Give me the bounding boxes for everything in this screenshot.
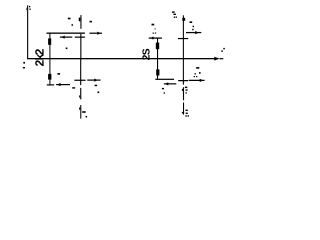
capacitor C1 lead below wire bbox=[80, 34, 81, 58]
arrowhead right end of rail bbox=[214, 57, 219, 61]
capacitor C3 plate bbox=[178, 38, 188, 39]
resistor R2 lead bbox=[49, 58, 50, 85]
label cluster top right bbox=[172, 11, 175, 12]
label specks left of R3 bbox=[152, 24, 155, 26]
capacitor C2 plate bbox=[74, 80, 85, 81]
axis arrow (left vertical reference line, arrowhead up) bbox=[27, 5, 28, 58]
specks below corner bbox=[162, 88, 164, 89]
specks above that arrow bbox=[196, 67, 199, 69]
dot mid left bbox=[66, 48, 68, 50]
resistor R3 bbox=[156, 43, 159, 50]
wire top rail left bbox=[47, 33, 85, 34]
vertical arrow up (below right rail) bbox=[183, 87, 184, 100]
current arrow left on bottom wire bbox=[56, 84, 70, 85]
capacitor C2 lead below rail bbox=[80, 58, 81, 85]
resistor R1 lead bbox=[49, 33, 50, 58]
speck left of rail bbox=[23, 62, 25, 64]
dots above rail end bbox=[221, 50, 223, 52]
resistor R4 bbox=[156, 69, 159, 75]
value label 2k2 (rotated) bbox=[35, 49, 44, 66]
dots near axis top bbox=[29, 6, 30, 7]
capacitor C4 plate (crossing) bbox=[178, 80, 188, 81]
capacitor C1 bottom plate bbox=[75, 37, 85, 38]
value label 2S (rotated) bbox=[142, 49, 149, 60]
current arrow up (capacitor C1 branch) bbox=[80, 15, 81, 29]
dash mid left bbox=[57, 73, 60, 75]
minus speck right of arrow tip bbox=[190, 21, 193, 23]
vertical arrow down bbox=[183, 103, 184, 115]
current arrow right at top rail end bbox=[89, 33, 102, 34]
current arrow right (lower right circuit) bbox=[189, 80, 205, 81]
current arrow right (lower left circuit) bbox=[87, 80, 100, 81]
specks near lower arrow bbox=[82, 111, 86, 113]
wire bottom left foot bbox=[47, 84, 54, 85]
current arrow left (bottom right) bbox=[164, 83, 176, 84]
resistor R2 bbox=[48, 74, 51, 80]
wire top right with left arrowhead bbox=[149, 37, 162, 38]
specks near C1 bbox=[68, 18, 71, 20]
minus speck left bbox=[72, 87, 75, 88]
specks near down arrow bbox=[186, 110, 188, 111]
wire middle common rail bbox=[27, 58, 215, 59]
current arrow right (top right circuit) bbox=[186, 32, 201, 33]
resistor R4 lead bbox=[157, 58, 158, 79]
current arrow down segment (C2 branch) bbox=[80, 88, 81, 100]
specks near that arrow bbox=[95, 85, 98, 87]
capacitor C3 lead (up arrow at top) bbox=[183, 15, 184, 84]
wire bottom right rail bbox=[155, 79, 174, 80]
lower vertical arrow (up bump) bbox=[80, 105, 81, 119]
current arrow left under top rail bbox=[60, 37, 72, 38]
specks near up arrow bbox=[185, 87, 187, 89]
resistor R1 bbox=[48, 38, 51, 44]
resistor R3 lead bbox=[157, 38, 158, 58]
dots below bbox=[193, 26, 194, 28]
